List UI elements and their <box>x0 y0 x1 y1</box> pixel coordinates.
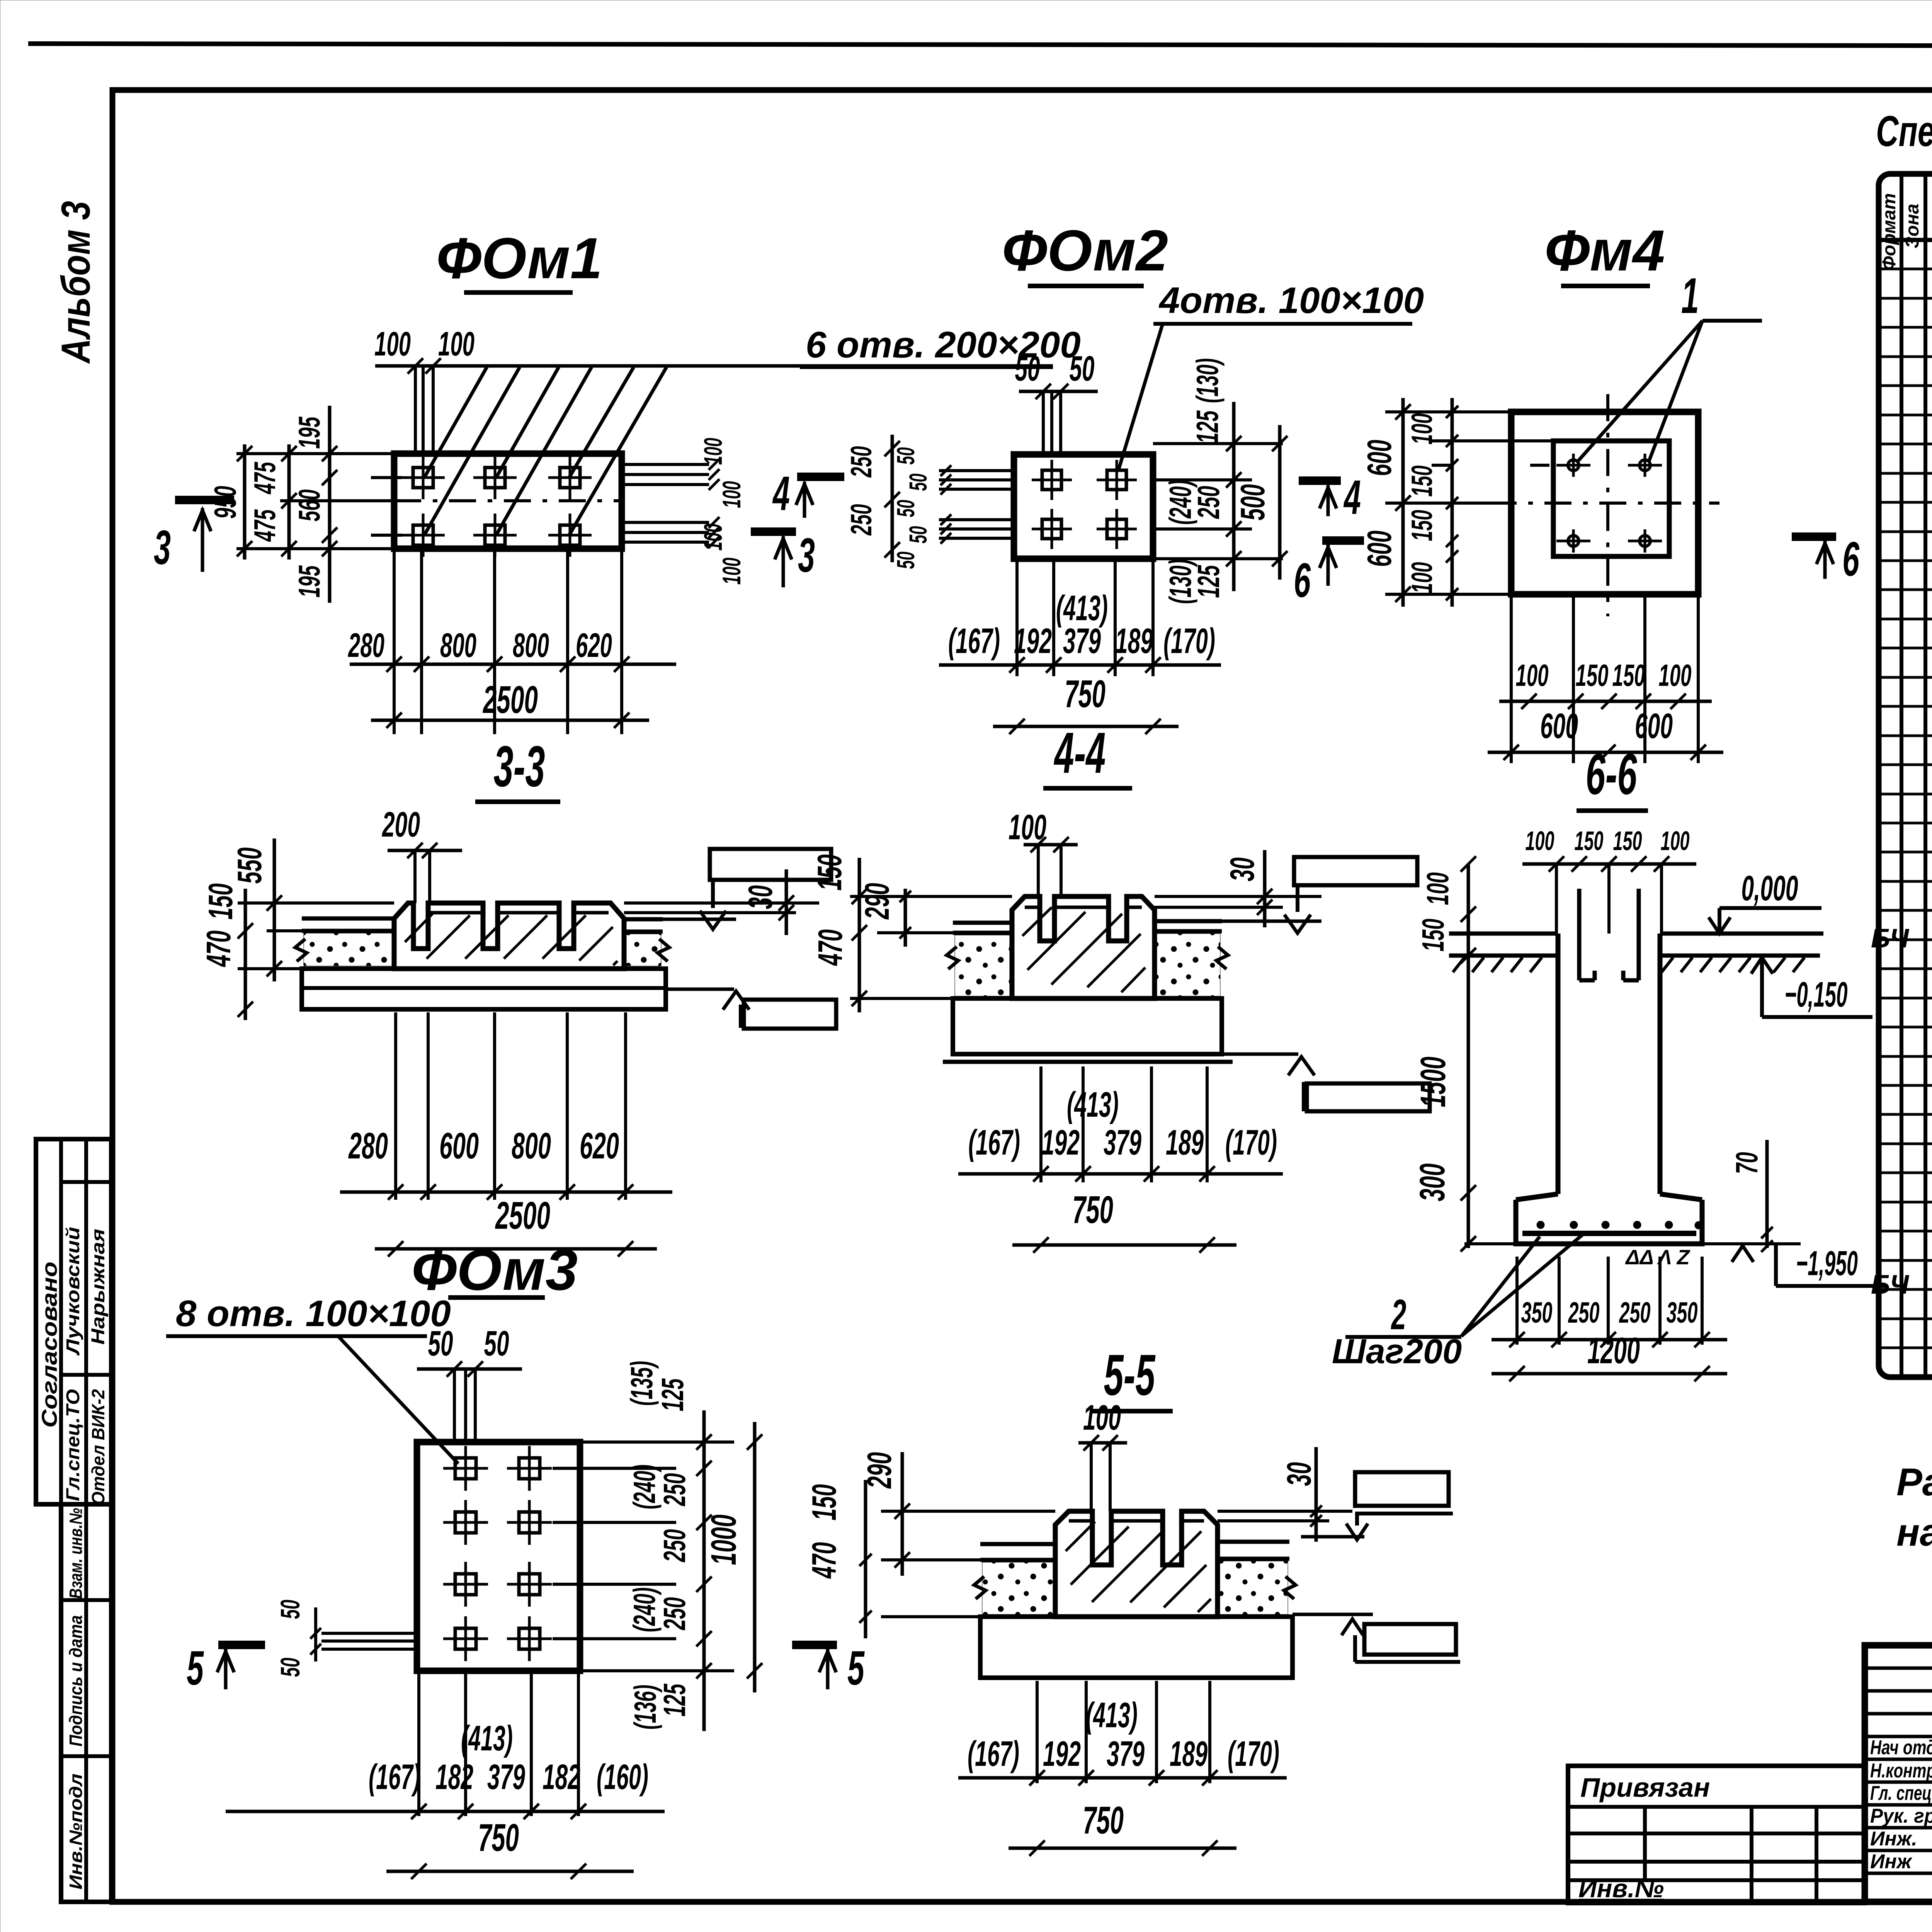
3-3 left dims <box>238 901 394 905</box>
5-5 base slab <box>980 1617 1293 1678</box>
svg-text:70: 70 <box>1730 1152 1764 1174</box>
svg-text:насосов ВК 4/24: насосов ВК 4/24 <box>1896 1511 1932 1554</box>
svg-text:189: 189 <box>1115 621 1153 661</box>
3-3 floor left <box>302 917 394 921</box>
FOm2 holes <box>1042 470 1061 490</box>
svg-text:(130): (130) <box>1190 358 1225 403</box>
svg-text:−1,950: −1,950 <box>1796 1244 1858 1283</box>
svg-text:50: 50 <box>484 1324 509 1363</box>
svg-text:250: 250 <box>657 1529 692 1563</box>
svg-text:100: 100 <box>699 524 727 551</box>
svg-text:125: 125 <box>1191 565 1226 598</box>
svg-text:Нач отд: Нач отд <box>1870 1736 1932 1759</box>
svg-text:550: 550 <box>230 847 269 884</box>
svg-text:475: 475 <box>248 509 282 542</box>
6-6 left dim chain <box>1467 864 1470 1248</box>
Fm4 left dims <box>1385 410 1511 413</box>
svg-text:100: 100 <box>374 325 411 363</box>
svg-text:470: 470 <box>805 1542 843 1579</box>
svg-text:30: 30 <box>741 885 779 909</box>
privyazan table <box>1568 1766 1865 1903</box>
svg-text:560: 560 <box>292 490 326 522</box>
svg-text:50: 50 <box>275 1658 305 1677</box>
3-3 floor arrow boxes <box>710 849 831 880</box>
svg-text:250: 250 <box>657 1473 692 1507</box>
svg-text:2500: 2500 <box>483 678 538 721</box>
ground hatch <box>1453 957 1464 972</box>
svg-text:600: 600 <box>1540 706 1578 746</box>
FOm2 bottom dims <box>1015 561 1019 676</box>
svg-text:250: 250 <box>1191 486 1226 519</box>
svg-text:125: 125 <box>1190 410 1225 444</box>
svg-text:Формат: Формат <box>1879 193 1900 270</box>
3-3 pedestal with grooves <box>394 903 624 969</box>
svg-text:ФОм3: ФОм3 <box>412 1237 578 1302</box>
svg-text:250: 250 <box>1619 1296 1650 1329</box>
Fm4 bottom dims <box>1510 597 1513 763</box>
svg-text:(413): (413) <box>1067 1085 1119 1124</box>
section marker 5 <box>218 1641 265 1649</box>
svg-text:100: 100 <box>1661 826 1690 856</box>
svg-text:100: 100 <box>438 325 474 363</box>
svg-text:ФОм1: ФОм1 <box>436 226 602 291</box>
svg-text:2500: 2500 <box>495 1194 550 1237</box>
svg-text:379: 379 <box>1107 1734 1145 1774</box>
svg-text:ΔΔ Λ Z: ΔΔ Λ Z <box>1625 1246 1690 1269</box>
outer top rule <box>28 44 1932 46</box>
6-6 column <box>1556 934 1561 1194</box>
svg-text:Инж.: Инж. <box>1870 1828 1917 1850</box>
svg-text:150: 150 <box>1613 826 1642 856</box>
svg-text:182: 182 <box>543 1757 580 1797</box>
4-4 base slab <box>953 998 1222 1054</box>
svg-text:280: 280 <box>348 1125 388 1167</box>
svg-text:Инж: Инж <box>1870 1850 1913 1873</box>
svg-text:379: 379 <box>1104 1123 1141 1162</box>
svg-text:150: 150 <box>805 1484 843 1520</box>
section marker 4 <box>797 473 844 481</box>
svg-text:(160): (160) <box>597 1757 648 1797</box>
svg-text:3: 3 <box>798 529 815 582</box>
svg-text:150: 150 <box>1612 658 1645 692</box>
svg-text:475: 475 <box>248 461 282 494</box>
svg-text:0,000: 0,000 <box>1742 869 1798 908</box>
svg-text:1: 1 <box>1681 267 1699 324</box>
svg-text:50: 50 <box>1015 349 1040 388</box>
Fm4 outer square <box>1511 412 1698 594</box>
svg-text:5: 5 <box>187 1641 204 1695</box>
left stamp upper block <box>36 1139 111 1504</box>
svg-text:100: 100 <box>1406 413 1439 445</box>
svg-text:750: 750 <box>1065 672 1105 716</box>
svg-text:3-3: 3-3 <box>494 734 545 799</box>
3-3 bottom dims <box>394 1012 397 1200</box>
svg-text:Размеры в скобках даны под: Размеры в скобках даны под установку <box>1896 1461 1932 1504</box>
Fm4 bolts pos.1 <box>1568 460 1579 471</box>
svg-text:Рук. гр: Рук. гр <box>1870 1805 1932 1827</box>
svg-text:(240): (240) <box>627 1587 662 1632</box>
Fm4 inner square <box>1553 441 1669 556</box>
svg-text:Лучковский: Лучковский <box>63 1227 83 1356</box>
svg-text:250: 250 <box>657 1597 692 1631</box>
svg-text:−0,150: −0,150 <box>1785 975 1848 1014</box>
svg-text:Инв.№подл: Инв.№подл <box>66 1774 86 1889</box>
svg-text:290: 290 <box>858 883 896 920</box>
svg-text:750: 750 <box>1083 1799 1124 1842</box>
svg-text:50: 50 <box>904 474 932 491</box>
5-5 floor right <box>1218 1540 1289 1544</box>
svg-text:(167): (167) <box>968 1123 1020 1162</box>
FOm1 centre axis <box>394 499 622 502</box>
svg-text:2: 2 <box>1391 1291 1406 1338</box>
svg-text:Гл.спец.ТО: Гл.спец.ТО <box>63 1389 83 1501</box>
svg-text:50: 50 <box>428 1324 453 1363</box>
4-4 floor left <box>953 921 1012 925</box>
svg-text:100: 100 <box>1420 872 1455 905</box>
svg-text:379: 379 <box>487 1757 525 1797</box>
section marker 4 <box>1299 476 1341 485</box>
6-6 anchor bolts <box>1577 889 1582 980</box>
svg-text:(413): (413) <box>461 1719 513 1758</box>
6-6 footing slab <box>1516 1200 1702 1244</box>
svg-text:(170): (170) <box>1163 621 1215 661</box>
svg-text:100: 100 <box>717 481 746 508</box>
svg-text:(167): (167) <box>948 621 1000 661</box>
svg-text:189: 189 <box>1166 1123 1204 1162</box>
svg-text:Взам. инв.№: Взам. инв.№ <box>66 1508 86 1599</box>
svg-text:(240): (240) <box>627 1464 662 1509</box>
svg-text:182: 182 <box>435 1757 473 1797</box>
svg-text:Спецификация ФОм1... ФОм3,Фм4,: Спецификация ФОм1... ФОм3,Фм4,Фм5 <box>1876 107 1932 155</box>
svg-text:4отв. 100×100: 4отв. 100×100 <box>1158 280 1424 321</box>
5-5 left dims <box>881 1510 1055 1513</box>
svg-text:600: 600 <box>439 1125 479 1167</box>
svg-text:(413): (413) <box>1086 1696 1138 1735</box>
svg-text:192: 192 <box>1014 621 1052 661</box>
svg-text:125: 125 <box>657 1684 692 1717</box>
FOm1 anchor holes <box>413 468 433 488</box>
svg-text:195: 195 <box>292 416 326 449</box>
svg-text:30: 30 <box>1223 857 1261 881</box>
svg-text:50: 50 <box>892 500 920 517</box>
FOm3 slab outline <box>417 1442 580 1671</box>
svg-text:800: 800 <box>512 1125 551 1167</box>
6-6 floor lines <box>1449 932 1558 936</box>
svg-text:50: 50 <box>904 526 932 544</box>
svg-text:50: 50 <box>1070 349 1095 388</box>
svg-text:(167): (167) <box>968 1734 1019 1774</box>
FOm1 right dims 100 <box>623 463 709 466</box>
leaders to holes <box>424 367 487 478</box>
4-4 floor arrow boxes <box>1294 857 1417 885</box>
svg-text:470: 470 <box>811 929 849 966</box>
svg-text:Привязан: Привязан <box>1580 1772 1710 1803</box>
svg-text:1500: 1500 <box>1413 1057 1453 1107</box>
svg-text:470: 470 <box>199 930 238 967</box>
3-3 floor right <box>624 917 663 922</box>
svg-text:150: 150 <box>1406 510 1439 541</box>
svg-text:200: 200 <box>382 805 420 844</box>
svg-text:100: 100 <box>1526 826 1554 856</box>
4-4 bottom dims <box>1039 1066 1043 1182</box>
svg-text:1200: 1200 <box>1587 1330 1640 1371</box>
svg-text:(170): (170) <box>1225 1123 1277 1162</box>
svg-text:100: 100 <box>1083 1398 1121 1437</box>
svg-text:150: 150 <box>1416 919 1450 952</box>
svg-text:100: 100 <box>717 558 746 585</box>
level -0,150 <box>1751 957 1773 974</box>
svg-text:БЧ: БЧ <box>1871 923 1910 953</box>
4-4 left dims <box>850 895 1012 898</box>
svg-text:100: 100 <box>1406 562 1439 594</box>
svg-text:6: 6 <box>1294 554 1311 607</box>
section marker 6 <box>1322 536 1364 545</box>
svg-text:620: 620 <box>576 626 612 664</box>
svg-text:100: 100 <box>1659 658 1692 692</box>
svg-text:350: 350 <box>1521 1296 1553 1329</box>
svg-text:50: 50 <box>892 447 920 465</box>
svg-text:600: 600 <box>1635 706 1673 746</box>
svg-text:ФОм2: ФОм2 <box>1002 218 1168 283</box>
5-5 pedestal <box>1055 1511 1218 1617</box>
section marker 5 <box>792 1641 837 1649</box>
svg-text:192: 192 <box>1042 1123 1080 1162</box>
FOm2 left dims 50s <box>939 469 1014 472</box>
svg-text:800: 800 <box>440 626 476 664</box>
title block <box>1865 1645 1932 1902</box>
svg-text:(167): (167) <box>369 1757 420 1797</box>
svg-text:Согласовано: Согласовано <box>37 1262 61 1428</box>
svg-text:600: 600 <box>1360 531 1398 567</box>
5-5 bottom dims <box>1036 1681 1039 1783</box>
svg-text:8 отв. 100×100: 8 отв. 100×100 <box>176 1293 451 1334</box>
FOm3 bottom dims <box>417 1673 420 1816</box>
svg-text:4: 4 <box>772 467 790 520</box>
svg-text:300: 300 <box>1413 1163 1452 1201</box>
svg-text:6: 6 <box>1842 532 1860 586</box>
FOm1 bottom dim chain <box>393 552 396 734</box>
svg-text:189: 189 <box>1170 1734 1207 1774</box>
svg-text:290: 290 <box>860 1452 898 1489</box>
svg-text:125: 125 <box>655 1378 690 1412</box>
svg-text:100: 100 <box>1516 658 1549 692</box>
svg-text:600: 600 <box>1360 440 1398 476</box>
svg-text:195: 195 <box>292 565 326 597</box>
FOm1 slab outline <box>394 454 622 549</box>
section marker 3 <box>751 527 796 536</box>
FOm2 slab outline <box>1014 454 1153 559</box>
svg-text:192: 192 <box>1043 1734 1081 1774</box>
svg-text:30: 30 <box>1280 1462 1318 1486</box>
level -1,950 <box>1732 1246 1753 1262</box>
svg-text:500: 500 <box>1233 484 1272 520</box>
FOm3 holes <box>455 1458 476 1479</box>
svg-text:5-5: 5-5 <box>1104 1342 1156 1407</box>
svg-text:Инв.№: Инв.№ <box>1578 1874 1664 1903</box>
svg-text:620: 620 <box>580 1125 619 1167</box>
left stamp lower block <box>61 1504 111 1902</box>
4-4 pedestal <box>1012 896 1155 998</box>
svg-text:250: 250 <box>845 504 878 536</box>
svg-text:50: 50 <box>892 552 920 569</box>
svg-text:Н.контр: Н.контр <box>1870 1760 1932 1782</box>
svg-text:280: 280 <box>348 626 384 664</box>
svg-text:350: 350 <box>1667 1296 1698 1329</box>
svg-text:Нарыжная: Нарыжная <box>88 1229 109 1345</box>
3-3 base slab <box>302 969 666 1009</box>
5-5 floor left <box>980 1542 1055 1546</box>
svg-text:Альбом 3: Альбом 3 <box>53 201 99 364</box>
svg-text:150: 150 <box>1406 466 1439 497</box>
svg-text:750: 750 <box>1072 1188 1113 1231</box>
svg-text:6-6: 6-6 <box>1586 742 1638 806</box>
specification table grid <box>1879 174 1932 1377</box>
svg-text:(170): (170) <box>1228 1734 1279 1774</box>
svg-text:Зона: Зона <box>1902 204 1923 248</box>
svg-text:750: 750 <box>478 1816 519 1859</box>
FOm3 right dim chain <box>580 1440 734 1444</box>
5-5 floor arrow boxes <box>1355 1472 1449 1506</box>
svg-text:250: 250 <box>845 446 878 478</box>
svg-text:Фм4: Фм4 <box>1544 218 1665 283</box>
svg-text:4: 4 <box>1343 471 1361 524</box>
4-4 floor right <box>1155 919 1222 923</box>
Fm4 axes <box>1490 502 1719 505</box>
svg-text:250: 250 <box>1568 1296 1599 1329</box>
svg-text:Гл. спец.: Гл. спец. <box>1870 1782 1932 1804</box>
svg-text:Подпись и дата: Подпись и дата <box>66 1615 86 1747</box>
svg-text:800: 800 <box>513 626 549 664</box>
svg-text:3: 3 <box>154 521 171 575</box>
section marker 6 <box>1792 532 1836 541</box>
svg-text:150: 150 <box>1575 826 1604 856</box>
svg-text:Шаг200: Шаг200 <box>1332 1332 1462 1371</box>
svg-text:1000: 1000 <box>704 1515 743 1565</box>
svg-text:(135): (135) <box>624 1361 659 1406</box>
svg-text:5: 5 <box>847 1641 865 1695</box>
svg-text:100: 100 <box>699 438 727 465</box>
svg-text:4-4: 4-4 <box>1054 720 1106 785</box>
section marker 3 <box>175 496 234 504</box>
6-6 bottom dims <box>1515 1257 1519 1345</box>
svg-text:50: 50 <box>275 1600 305 1619</box>
svg-text:379: 379 <box>1063 621 1101 661</box>
FOm2 right dim chain <box>1153 442 1283 445</box>
svg-text:150: 150 <box>810 854 849 891</box>
6-6 rebar mesh pos.2 <box>1522 1231 1696 1236</box>
svg-text:БЧ: БЧ <box>1871 1269 1910 1299</box>
FOm3 left 50 dims <box>321 1632 417 1635</box>
svg-text:150: 150 <box>1576 658 1609 692</box>
FOm1 left dims <box>236 452 394 455</box>
svg-text:Отдел ВИК-2: Отдел ВИК-2 <box>88 1389 108 1505</box>
svg-text:150: 150 <box>201 883 240 920</box>
